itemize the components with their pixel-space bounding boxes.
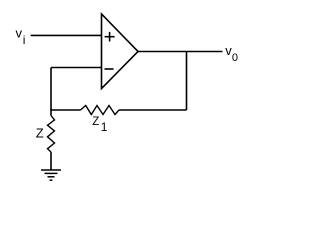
svg-text:i: i: [23, 33, 26, 47]
wire vi to op-amp noninverting input: [31, 34, 102, 36]
wire Z1 right lead to output branch: [119, 109, 187, 111]
svg-text:Z: Z: [36, 126, 44, 141]
svg-text:1: 1: [101, 120, 108, 134]
op-amp plus input marker: [105, 32, 115, 42]
svg-text:0: 0: [232, 52, 238, 64]
wire feedback node down to Z top lead: [50, 109, 52, 115]
op-amp U1: [102, 14, 139, 89]
wire inverting input down to feedback node (vertical): [50, 68, 52, 111]
wire output junction down to feedback (vertical): [186, 52, 188, 111]
svg-text:v: v: [16, 26, 23, 41]
resistor Z1 (zigzag): [81, 106, 120, 115]
wire op-amp output to vo: [138, 51, 223, 53]
wire op-amp inverting input (horizontal): [51, 67, 102, 69]
wire feedback node to Z1 left lead: [51, 109, 81, 111]
op-amp minus input marker: [105, 68, 114, 70]
resistor Z (zigzag): [48, 116, 55, 153]
svg-text:Z: Z: [92, 116, 99, 128]
ground: [41, 170, 61, 180]
wire Z bottom lead to ground: [50, 152, 52, 170]
